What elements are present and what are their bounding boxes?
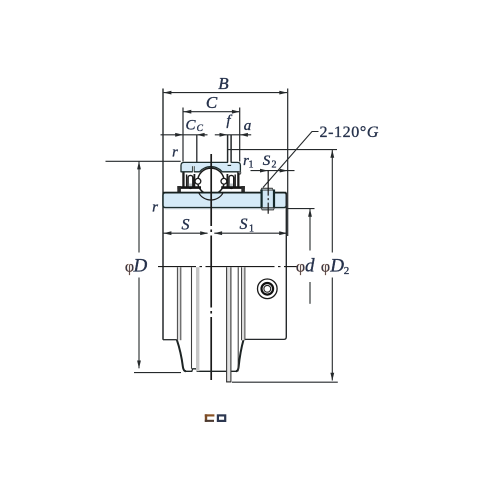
outer ring face gray band left in elevation: [196, 267, 199, 371]
wire C right extension line: [239, 108, 241, 162]
svg-text:B: B: [218, 74, 229, 93]
svg-text:2-120°G: 2-120°G: [320, 124, 379, 141]
wire snap ring groove left line: [227, 135, 229, 165]
svg-text:S: S: [240, 216, 248, 233]
svg-text:φ: φ: [296, 258, 305, 275]
wire phiD2 top extension line: [228, 149, 337, 151]
dimension f and a arrow line: [215, 134, 251, 136]
leader line for set screw 2-120G: [263, 132, 319, 188]
snap ring band in elevation: [227, 267, 231, 382]
cage pocket right: [229, 175, 234, 188]
svg-text:C: C: [197, 124, 204, 134]
right face seal notch: [238, 171, 240, 175]
dimension B line with arrows: [164, 92, 288, 94]
svg-text:D: D: [133, 255, 148, 276]
phiD dimension line upper: [138, 161, 140, 252]
wire Cc right extension line: [196, 135, 198, 165]
phiD dimension line lower: [138, 278, 140, 369]
wire left face line of inner ring: [162, 193, 164, 340]
sleeve top heavy edge: [163, 192, 286, 194]
inner ring raceway arc: [199, 193, 224, 200]
phid extension line: [287, 208, 315, 210]
snap ring groove slot: [228, 162, 230, 165]
svg-text:2: 2: [272, 160, 277, 171]
svg-text:S: S: [263, 153, 271, 169]
wire B right extension line: [287, 89, 289, 237]
dimension S1 line with arrows: [214, 232, 287, 234]
seal left: [182, 173, 184, 187]
seal groove slot left: [193, 166, 195, 172]
set screw cap: [261, 188, 274, 191]
svg-text:2: 2: [344, 265, 350, 277]
heavy seal bottom line left: [177, 186, 201, 189]
phiD2 bottom extension line: [232, 381, 338, 383]
phiD2 dimension line lower with arrow: [331, 278, 333, 381]
svg-text:d: d: [305, 255, 315, 276]
outer ring face line right in elevation: [237, 267, 239, 371]
svg-text:S: S: [182, 217, 190, 234]
svg-text:r: r: [172, 145, 178, 161]
elevation right bottom step: [244, 337, 287, 340]
heavy seal bottom line right: [221, 186, 245, 189]
horizontal center axis line: [158, 266, 297, 268]
dimension Cc arrow line: [161, 134, 208, 136]
phid dimension line upper with arrow: [309, 209, 311, 251]
dimension S line with arrows: [164, 232, 208, 234]
elevation left bottom step: [163, 339, 177, 341]
svg-text:r: r: [152, 200, 158, 216]
svg-text:1: 1: [249, 160, 254, 171]
slinger band right in elevation: [242, 267, 245, 340]
label ER letter R top: [218, 415, 225, 421]
set screw axis line: [267, 171, 269, 214]
svg-text:C: C: [206, 93, 218, 112]
svg-text:D: D: [329, 255, 344, 276]
set screw head-on socket ring: [262, 283, 274, 295]
vertical center axis line: [210, 154, 212, 380]
wire B left extension line: [162, 89, 164, 193]
groove line left in elevation: [191, 267, 193, 369]
sleeve bottom shadow: [165, 208, 284, 209]
set screw head-on outer circle: [258, 279, 278, 299]
dimension S2 line with arrows: [251, 170, 295, 172]
outer ring blue section: [181, 162, 240, 171]
set screw bottom tip: [261, 208, 274, 210]
slinger band left in elevation: [178, 267, 181, 340]
cage rivet left: [195, 178, 201, 184]
phiD2 dimension line upper with arrow: [331, 150, 333, 253]
slinger block left: [177, 186, 181, 193]
label ER clipped at bottom, letter E top: [205, 414, 225, 422]
svg-text:f: f: [226, 113, 232, 129]
wire C left extension line: [182, 108, 184, 162]
wire phiD top extension line: [106, 160, 181, 162]
inner ring sleeve: [163, 193, 286, 208]
dimension C line with arrows: [184, 111, 240, 113]
elevation left chamfer taper: [177, 340, 186, 372]
phid dimension line lower: [309, 282, 311, 304]
elevation bottom edge with notch: [186, 369, 237, 372]
set screw body: [262, 191, 274, 208]
set screw head-on inner circle: [264, 285, 271, 292]
svg-text:a: a: [244, 118, 252, 134]
wire right face line of inner ring: [285, 193, 287, 338]
phiD bottom extension line: [134, 372, 181, 374]
svg-text:C: C: [185, 118, 196, 134]
cage bar left: [193, 174, 195, 188]
cage bar right: [226, 174, 228, 188]
wire snap ring groove right line: [230, 135, 232, 165]
svg-text:1: 1: [249, 224, 254, 235]
seal right: [237, 173, 239, 187]
cage pocket left: [188, 175, 193, 188]
svg-text:φ: φ: [321, 258, 330, 275]
elevation right chamfer taper: [236, 339, 244, 371]
cage rivet right: [221, 178, 227, 184]
slinger block right: [241, 186, 245, 193]
ball: [198, 168, 225, 195]
